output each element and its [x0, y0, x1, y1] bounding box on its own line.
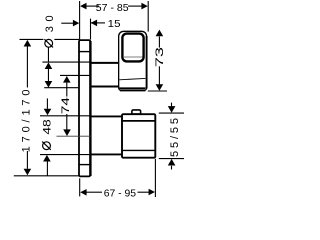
svg-text:74: 74 [60, 97, 72, 114]
svg-text:67 - 95: 67 - 95 [104, 189, 137, 200]
svg-text:57 - 85: 57 - 85 [96, 3, 129, 14]
svg-text:73: 73 [154, 47, 166, 67]
svg-text:15: 15 [108, 19, 121, 30]
svg-text:48: 48 [42, 119, 54, 134]
svg-text:30: 30 [44, 11, 56, 32]
svg-text:170/170: 170/170 [21, 86, 33, 153]
svg-text:55/55: 55/55 [169, 115, 181, 157]
